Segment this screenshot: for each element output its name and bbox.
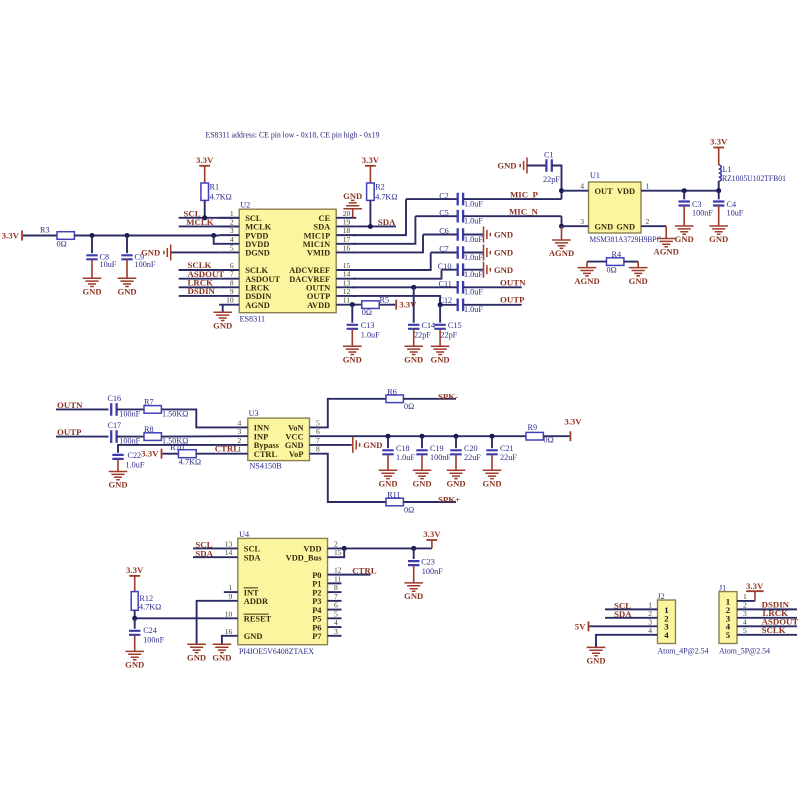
svg-text:13: 13	[343, 278, 351, 287]
wire R4 left	[587, 261, 607, 263]
side ground at U3 pin7	[353, 437, 360, 453]
svg-text:13: 13	[225, 539, 233, 548]
svg-text:22uF: 22uF	[500, 453, 517, 462]
wire U2 pin18 MIC1P riser	[353, 199, 406, 235]
svg-text:GND: GND	[125, 660, 144, 670]
svg-text:16: 16	[343, 243, 351, 252]
svg-text:8: 8	[334, 583, 338, 592]
svg-text:22pF: 22pF	[543, 175, 560, 184]
svg-text:RESET: RESET	[244, 615, 272, 624]
svg-text:GND: GND	[629, 276, 648, 286]
power port 3.3V at J1	[746, 590, 763, 592]
wire SDA from U2 pin19	[356, 225, 396, 227]
wire SCLK to U2	[179, 269, 220, 271]
wire R11 to SPK+	[403, 501, 456, 503]
svg-text:0Ω: 0Ω	[404, 505, 414, 514]
svg-text:1: 1	[229, 583, 233, 592]
svg-text:6: 6	[316, 427, 320, 436]
svg-text:3: 3	[238, 427, 242, 436]
wire U3 GND pin7	[310, 444, 352, 446]
wire U4 P0 CTRL	[328, 574, 371, 576]
wire U3 VoN to R6	[310, 399, 387, 428]
svg-text:ES8311 address: CE pin low - 0: ES8311 address: CE pin low - 0x18, CE pi…	[206, 131, 380, 140]
ground below C8	[83, 278, 102, 286]
svg-text:100nF: 100nF	[135, 260, 156, 269]
svg-text:C15: C15	[448, 321, 462, 330]
svg-text:4.7KΩ: 4.7KΩ	[179, 458, 201, 467]
svg-text:6: 6	[230, 261, 234, 270]
svg-text:10uF: 10uF	[727, 208, 744, 217]
svg-text:R11: R11	[387, 491, 400, 500]
J1 internal pin numbers	[726, 596, 731, 640]
svg-text:3.3V: 3.3V	[710, 137, 728, 147]
svg-text:OUTP: OUTP	[57, 427, 82, 437]
side ground at C7	[484, 245, 491, 261]
wire PVDD to DVDD	[214, 236, 220, 244]
svg-text:GND: GND	[497, 161, 516, 171]
power port 3.3V above R1	[204, 166, 206, 183]
svg-text:C5: C5	[439, 208, 449, 217]
wire J2 pin4 to ground	[596, 635, 658, 648]
resistor R6	[386, 395, 403, 403]
ground below C24	[125, 651, 144, 659]
U4 pin numbers	[225, 539, 342, 635]
wire U1 pin3	[562, 225, 589, 227]
wire U2 pin20 CE to ground	[352, 217, 354, 219]
wire U4 RESET row	[135, 617, 238, 619]
capacitor C23	[413, 548, 415, 559]
wire DSDIN to U2	[179, 295, 220, 297]
capacitor C24	[134, 618, 136, 628]
svg-text:GND: GND	[117, 286, 136, 296]
svg-text:C23: C23	[421, 558, 435, 567]
svg-text:P6: P6	[312, 623, 321, 632]
resistor R10	[178, 450, 196, 458]
wire C2 to MIC_P node	[463, 198, 561, 200]
wire DACVREF row	[442, 269, 458, 271]
svg-text:GND: GND	[187, 653, 206, 663]
svg-text:C10: C10	[438, 262, 452, 271]
U2 pin stubs	[219, 218, 356, 305]
ground below C19	[413, 470, 432, 478]
junction R1-SCL	[202, 215, 207, 220]
wire ADCVREF row	[431, 252, 458, 254]
svg-text:CTRL: CTRL	[254, 450, 278, 459]
svg-text:GND: GND	[244, 632, 263, 641]
svg-text:GND: GND	[141, 248, 160, 258]
svg-text:C16: C16	[108, 394, 122, 403]
wire U1 pin1 VDD	[641, 190, 719, 192]
svg-text:Atom_5P@2.54: Atom_5P@2.54	[719, 646, 770, 655]
connector J1 body	[719, 592, 737, 644]
svg-text:GND: GND	[482, 479, 501, 489]
capacitor C7	[458, 246, 463, 259]
svg-text:VDD_Bus: VDD_Bus	[286, 553, 323, 562]
U1 pin names	[595, 187, 636, 232]
wire R10 to U3 CTRL	[196, 453, 248, 455]
junction C15 tap on OUTP	[438, 302, 443, 307]
capacitor C13	[351, 305, 353, 323]
wire MIC_N down to U1 pin3	[561, 216, 563, 226]
svg-text:DACVREF: DACVREF	[289, 275, 330, 284]
svg-text:AGND: AGND	[549, 248, 574, 258]
capacitor C19	[421, 436, 423, 448]
svg-text:C22: C22	[128, 451, 142, 460]
capacitor C15	[439, 305, 441, 323]
svg-text:VDD: VDD	[617, 187, 635, 196]
svg-text:15: 15	[334, 548, 342, 557]
svg-text:12: 12	[334, 566, 342, 575]
op-amp U2 ES8311 body	[239, 209, 336, 313]
svg-text:10: 10	[226, 296, 234, 305]
svg-text:ADDR: ADDR	[244, 597, 269, 606]
svg-text:6: 6	[334, 601, 338, 610]
wire SCL to U4	[193, 547, 238, 549]
svg-text:R5: R5	[380, 295, 390, 304]
resistor R1	[201, 183, 209, 200]
wire J1 pin4 ASDOUT	[737, 625, 797, 627]
svg-text:L1: L1	[723, 165, 732, 174]
wire U3 VCC rail	[310, 435, 527, 437]
wire ASDOUT to U2	[179, 278, 220, 280]
svg-text:PI4IOE5V6408ZTAEX: PI4IOE5V6408ZTAEX	[239, 647, 314, 656]
svg-text:C24: C24	[143, 626, 157, 635]
svg-text:AGND: AGND	[574, 276, 599, 286]
svg-text:17: 17	[343, 235, 351, 244]
svg-text:2: 2	[334, 539, 338, 548]
svg-text:R7: R7	[144, 398, 154, 407]
wire C7 to ground	[463, 252, 483, 254]
svg-text:C20: C20	[464, 444, 478, 453]
junction C8 node	[90, 233, 95, 238]
svg-text:OUTN: OUTN	[500, 278, 526, 288]
svg-text:9: 9	[229, 592, 233, 601]
wire U4 INT stub	[224, 591, 238, 593]
wire VDD_Bus tie	[328, 548, 345, 557]
side ground at C1	[520, 158, 527, 174]
power port 5V at J2	[588, 621, 590, 631]
svg-text:AGND: AGND	[654, 247, 679, 257]
wire OUTN row mid	[56, 408, 109, 410]
svg-text:16: 16	[225, 627, 233, 636]
capacitor C14	[413, 287, 415, 322]
junction C3 node	[682, 188, 687, 193]
svg-text:1.0uF: 1.0uF	[126, 461, 145, 470]
svg-text:C19: C19	[430, 444, 444, 453]
power port 3.3V at R9	[569, 431, 571, 441]
svg-text:GND: GND	[404, 591, 423, 601]
svg-text:22pF: 22pF	[440, 331, 457, 340]
junction C9 node	[125, 233, 130, 238]
svg-text:SCLK: SCLK	[245, 266, 268, 275]
svg-text:1.0uF: 1.0uF	[361, 331, 380, 340]
svg-text:19: 19	[343, 217, 351, 226]
wire SDA to U4	[193, 556, 238, 558]
svg-text:R9: R9	[528, 423, 538, 432]
svg-text:INT: INT	[244, 588, 259, 597]
capacitor C8	[91, 236, 93, 254]
svg-text:GND: GND	[494, 265, 513, 275]
svg-text:3.3V: 3.3V	[746, 581, 764, 591]
resistor R4	[607, 258, 624, 266]
svg-text:OUTN: OUTN	[306, 284, 330, 293]
svg-text:VMID: VMID	[307, 249, 330, 258]
svg-text:100nF: 100nF	[430, 453, 451, 462]
wire U1 pin2 GND	[641, 225, 666, 227]
wire C17 to R8	[117, 436, 144, 438]
wire J1 pin2 DSDIN	[737, 608, 797, 610]
svg-text:0Ω: 0Ω	[607, 266, 617, 275]
svg-text:4: 4	[580, 182, 584, 191]
svg-text:20: 20	[343, 209, 351, 218]
svg-text:GND: GND	[586, 656, 605, 666]
svg-text:14: 14	[343, 270, 351, 279]
wire MIC_N row	[415, 215, 457, 217]
capacitor C2	[458, 193, 463, 206]
ground below J2	[587, 647, 606, 655]
svg-text:GND: GND	[446, 479, 465, 489]
svg-text:GND: GND	[108, 480, 127, 490]
resistor R2	[367, 183, 375, 200]
svg-text:CTRL: CTRL	[215, 444, 240, 454]
svg-text:VoP: VoP	[289, 450, 304, 459]
svg-text:18: 18	[343, 226, 351, 235]
microphone U1 body	[589, 182, 642, 233]
wire MIC_P up to U1 pin4 row	[561, 191, 563, 199]
svg-text:R4: R4	[612, 250, 622, 259]
capacitor C18	[387, 436, 389, 448]
wire C5 to MIC_N node	[463, 215, 561, 217]
svg-text:1.0uF: 1.0uF	[464, 270, 483, 279]
svg-text:100nF: 100nF	[692, 208, 713, 217]
U2 pin names	[245, 214, 330, 310]
svg-text:R8: R8	[144, 425, 154, 434]
svg-text:DVDD: DVDD	[245, 240, 269, 249]
connector J2 body	[658, 600, 676, 644]
svg-text:GND: GND	[431, 354, 450, 364]
svg-text:14: 14	[225, 548, 233, 557]
svg-text:C17: C17	[108, 421, 122, 430]
wire U2 pin15 ADCVREF riser	[353, 253, 431, 271]
svg-text:0Ω: 0Ω	[404, 402, 414, 411]
svg-text:11: 11	[343, 296, 351, 305]
wire DGND to side ground	[171, 251, 220, 253]
svg-text:SDA: SDA	[195, 548, 213, 558]
wire C10 to ground	[463, 269, 483, 271]
svg-text:MIC1P: MIC1P	[304, 231, 331, 240]
wire U4 GND pin16	[222, 636, 238, 645]
junction C4 node	[716, 188, 721, 193]
svg-text:10uF: 10uF	[100, 260, 117, 269]
ground below C9	[118, 278, 137, 286]
svg-text:GND: GND	[412, 479, 431, 489]
wire R3 to U2 PVDD	[74, 235, 219, 237]
wire MCLK to U2 pin2	[179, 225, 240, 227]
svg-text:U3: U3	[249, 409, 259, 418]
svg-text:1.0uF: 1.0uF	[464, 288, 483, 297]
capacitor C3	[683, 191, 685, 200]
ground right of R4	[629, 268, 648, 276]
wire 5V to J2	[590, 625, 658, 627]
svg-text:AGND: AGND	[245, 301, 270, 310]
svg-text:U1: U1	[590, 171, 600, 180]
svg-text:22uF: 22uF	[464, 453, 481, 462]
svg-text:MCLK: MCLK	[186, 217, 214, 227]
ground AGND below U1 pin3	[561, 226, 563, 240]
capacitor C16	[111, 403, 116, 416]
svg-text:R1: R1	[210, 183, 220, 192]
wire LRCK to U2	[179, 286, 220, 288]
svg-text:OUTP: OUTP	[500, 295, 525, 305]
svg-text:VoN: VoN	[288, 424, 304, 433]
wire U2 pin14 DACVREF riser	[353, 270, 442, 279]
svg-text:RZ1005U102TFB01: RZ1005U102TFB01	[722, 174, 786, 183]
svg-text:VCC: VCC	[285, 432, 303, 441]
svg-text:SDA: SDA	[313, 223, 330, 232]
svg-text:GND: GND	[494, 230, 513, 240]
svg-text:P5: P5	[312, 615, 321, 624]
svg-text:GND: GND	[404, 354, 423, 364]
svg-text:MIC_P: MIC_P	[510, 189, 538, 199]
junction C13 node	[350, 302, 355, 307]
svg-text:SCLK: SCLK	[762, 625, 786, 635]
svg-text:3.3V: 3.3V	[141, 449, 159, 459]
svg-text:C13: C13	[361, 321, 375, 330]
svg-text:ES8311: ES8311	[240, 315, 266, 324]
J2 external pin numbers	[648, 600, 652, 634]
svg-text:3.3V: 3.3V	[126, 565, 144, 575]
svg-text:SCL: SCL	[245, 214, 262, 223]
U2 pin numbers	[226, 209, 350, 305]
capacitor C12	[458, 299, 463, 312]
wire 3.3V to R3	[23, 235, 57, 237]
svg-text:SCL: SCL	[244, 545, 261, 554]
svg-text:C18: C18	[396, 444, 410, 453]
svg-text:INP: INP	[254, 432, 268, 441]
resistor R3	[57, 232, 74, 240]
svg-text:8: 8	[230, 278, 234, 287]
svg-text:SDA: SDA	[614, 609, 632, 619]
power port 3.3V at U4	[431, 540, 433, 548]
svg-text:4.7KΩ: 4.7KΩ	[375, 192, 397, 201]
svg-text:8: 8	[316, 445, 320, 454]
svg-text:C1: C1	[544, 150, 554, 159]
svg-text:CE: CE	[319, 214, 331, 223]
wire J1 pin3 LRCK	[737, 617, 797, 619]
svg-text:5V: 5V	[575, 621, 586, 631]
capacitor C21	[491, 436, 493, 448]
resistor R8	[144, 433, 161, 441]
junction PVDD node	[211, 233, 216, 238]
svg-text:3: 3	[230, 226, 234, 235]
svg-text:12: 12	[343, 287, 351, 296]
svg-text:GND: GND	[378, 479, 397, 489]
wire SCL to J2	[605, 608, 658, 610]
ground AGND left of R4	[578, 268, 597, 276]
wire AVDD from U2 pin11	[353, 304, 362, 306]
svg-text:MCLK: MCLK	[245, 223, 272, 232]
junction C20	[454, 434, 459, 439]
wire C1 to MIC_P node	[552, 166, 562, 191]
svg-text:R10: R10	[170, 443, 184, 452]
wire R5 to 3.3V	[379, 304, 395, 306]
junction C23 node	[411, 546, 416, 551]
side ground at DGND	[164, 244, 171, 260]
capacitor C10	[458, 263, 463, 276]
U4 P1-P7 stubs	[328, 583, 342, 635]
svg-text:5: 5	[316, 418, 320, 427]
wire U4 VDD rail	[328, 547, 432, 549]
svg-text:DGND: DGND	[245, 249, 270, 258]
wire R4 right	[624, 261, 638, 263]
svg-text:GND: GND	[212, 653, 231, 663]
svg-text:SPK+: SPK+	[438, 495, 460, 505]
wire R9 to 3.3V	[543, 435, 569, 437]
svg-text:1: 1	[646, 182, 650, 191]
svg-text:MIC1N: MIC1N	[303, 240, 330, 249]
junction MIC_P node	[559, 188, 564, 193]
svg-text:3: 3	[334, 627, 338, 636]
svg-text:2: 2	[230, 217, 234, 226]
ground below C14	[404, 346, 423, 354]
svg-text:OUTN: OUTN	[57, 400, 83, 410]
svg-text:C7: C7	[439, 245, 449, 254]
wire C11 to OUTN label	[463, 286, 522, 288]
svg-text:P0: P0	[312, 571, 321, 580]
svg-text:MSM381A3729H9BPC: MSM381A3729H9BPC	[590, 235, 662, 244]
svg-text:SPK-: SPK-	[438, 391, 458, 401]
wire Bypass to C22	[118, 445, 248, 453]
capacitor C6	[458, 228, 463, 241]
capacitor C9	[126, 236, 128, 254]
svg-text:1.0uF: 1.0uF	[464, 253, 483, 262]
svg-text:SDA: SDA	[378, 217, 396, 227]
svg-text:VDD: VDD	[303, 545, 321, 554]
ground below C23	[404, 583, 423, 591]
junction C21	[490, 434, 495, 439]
wire U2 AGND pin10 to ground	[222, 305, 224, 313]
svg-text:Bypass: Bypass	[254, 441, 280, 450]
resistor R5	[362, 301, 379, 309]
svg-text:100nF: 100nF	[422, 567, 443, 576]
svg-text:GND: GND	[494, 248, 513, 258]
wire VMID row	[423, 234, 458, 236]
svg-text:4.7KΩ: 4.7KΩ	[139, 602, 161, 611]
svg-text:C21: C21	[500, 444, 514, 453]
side ground at C10	[484, 262, 491, 278]
svg-text:P3: P3	[312, 597, 321, 606]
svg-text:1.0uF: 1.0uF	[464, 217, 483, 226]
wire 3.3V to R10	[163, 453, 179, 455]
wire SDA to J2	[605, 617, 658, 619]
ground below C13	[343, 346, 362, 354]
svg-text:U4: U4	[239, 530, 249, 539]
svg-text:R3: R3	[40, 226, 50, 235]
svg-text:CTRL: CTRL	[352, 565, 377, 575]
ground above U2 pin20	[343, 200, 362, 208]
junction R12-RESET-C24	[132, 616, 137, 621]
U3 pin names	[254, 424, 304, 459]
wire ground to C1	[527, 165, 546, 167]
svg-text:OUTP: OUTP	[307, 292, 330, 301]
svg-text:4: 4	[664, 630, 669, 640]
junction C18	[386, 434, 391, 439]
svg-text:4.7KΩ: 4.7KΩ	[210, 192, 232, 201]
ground below C20	[447, 470, 466, 478]
svg-text:22pF: 22pF	[414, 331, 431, 340]
svg-text:GND: GND	[363, 440, 382, 450]
svg-text:10: 10	[225, 609, 233, 618]
